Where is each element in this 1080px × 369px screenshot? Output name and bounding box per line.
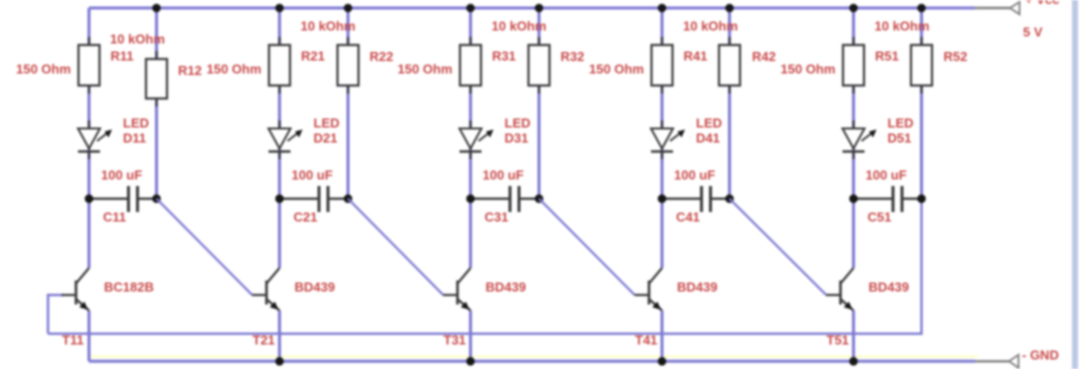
- svg-text:R21: R21: [301, 49, 325, 64]
- wire T11 base loop vertical: [47, 294, 49, 334]
- svg-text:10 kOhm: 10 kOhm: [683, 19, 738, 34]
- node stage1 rail right: [152, 4, 161, 13]
- svg-text:- GND: - GND: [1022, 348, 1059, 363]
- capacitor C51: [854, 186, 922, 212]
- resistor R11: [79, 37, 100, 94]
- transistor T11: [62, 268, 90, 311]
- svg-text:C11: C11: [103, 210, 126, 225]
- wire C31 to T41 base: [539, 199, 635, 295]
- node stage4 ground: [658, 357, 667, 366]
- node stage4 cap right: [725, 194, 734, 203]
- svg-text:R42: R42: [752, 49, 776, 64]
- node stage2 cap right: [344, 194, 353, 203]
- capacitor C21: [280, 186, 349, 212]
- node stage2 cap left: [275, 194, 284, 203]
- wire stage2 right vertical: [347, 8, 350, 199]
- transistor T31: [443, 268, 471, 311]
- svg-text:R41: R41: [684, 49, 708, 64]
- svg-text:BD439: BD439: [869, 280, 909, 295]
- resistor R32: [529, 37, 550, 94]
- svg-text:R11: R11: [111, 49, 134, 64]
- svg-text:LED: LED: [505, 116, 531, 131]
- svg-text:R31: R31: [492, 49, 516, 64]
- svg-text:10 kOhm: 10 kOhm: [110, 32, 165, 47]
- svg-text:LED: LED: [696, 116, 722, 131]
- svg-text:C31: C31: [485, 210, 509, 225]
- node stage5 rail left: [849, 4, 858, 13]
- svg-text:D51: D51: [888, 131, 912, 146]
- node stage5 cap right: [917, 194, 926, 203]
- resistor R52: [911, 37, 932, 94]
- node stage4 rail left: [658, 4, 667, 13]
- svg-text:LED: LED: [123, 116, 149, 131]
- node stage2 rail left: [275, 4, 284, 13]
- svg-text:D41: D41: [696, 131, 720, 146]
- terminal +Vcc: [1010, 2, 1020, 14]
- svg-text:LED: LED: [314, 116, 340, 131]
- wire stage4 right vertical: [728, 8, 731, 199]
- svg-text:10 kOhm: 10 kOhm: [492, 19, 547, 34]
- wire +5V top rail: [89, 7, 975, 10]
- svg-text:C51: C51: [868, 210, 892, 225]
- resistor R42: [719, 37, 740, 94]
- svg-text:10 kOhm: 10 kOhm: [875, 19, 930, 34]
- node stage4 rail right: [725, 4, 734, 13]
- wire T41 emitter to ground: [661, 311, 664, 362]
- LED D41: [651, 121, 685, 160]
- svg-text:10 kOhm: 10 kOhm: [301, 19, 356, 34]
- wire stage1 left vertical: [88, 8, 91, 268]
- svg-text:150 Ohm: 150 Ohm: [207, 62, 262, 77]
- svg-text:BD439: BD439: [677, 280, 717, 295]
- wire GND terminal lead: [975, 360, 1009, 362]
- transistor T51: [826, 268, 854, 311]
- svg-text:5 V: 5 V: [1023, 25, 1043, 40]
- wire stage5 left vertical: [852, 8, 855, 268]
- svg-text:+ Vcc: + Vcc: [1025, 0, 1059, 7]
- LED D11: [78, 121, 112, 160]
- terminal GND: [1009, 355, 1019, 368]
- LED D31: [460, 121, 494, 160]
- node stage1 cap left: [85, 194, 94, 203]
- svg-text:100 uF: 100 uF: [866, 168, 907, 183]
- svg-text:150 Ohm: 150 Ohm: [398, 62, 453, 77]
- wire stage1 right vertical: [155, 8, 158, 199]
- capacitor C41: [662, 186, 730, 212]
- wire +5V terminal lead: [975, 7, 1010, 9]
- svg-text:C41: C41: [676, 210, 700, 225]
- svg-text:T21: T21: [253, 333, 275, 348]
- svg-text:D31: D31: [505, 131, 529, 146]
- LED D51: [843, 121, 877, 160]
- svg-text:150 Ohm: 150 Ohm: [589, 62, 644, 77]
- svg-text:R51: R51: [875, 49, 899, 64]
- node stage4 cap left: [658, 194, 667, 203]
- wire T31 emitter to ground: [469, 311, 472, 362]
- svg-text:150 Ohm: 150 Ohm: [781, 62, 836, 77]
- svg-text:R32: R32: [561, 49, 585, 64]
- node stage1 cap right: [152, 194, 161, 203]
- wire T11 base loop horizontal: [48, 294, 64, 296]
- wire stage3 left vertical: [469, 8, 472, 268]
- node stage3 rail left: [466, 4, 475, 13]
- wire stage5 base drop: [920, 199, 922, 335]
- wire T11 emitter to ground: [88, 311, 91, 362]
- svg-text:T11: T11: [62, 333, 84, 348]
- svg-text:BD439: BD439: [295, 280, 335, 295]
- capacitor C11: [89, 186, 157, 212]
- svg-text:BC182B: BC182B: [104, 280, 154, 295]
- svg-text:T41: T41: [635, 333, 657, 348]
- node stage5 rail right: [917, 4, 926, 13]
- wire feedback bottom: [48, 333, 922, 335]
- resistor R21: [269, 37, 290, 94]
- svg-text:R52: R52: [944, 49, 968, 64]
- svg-text:D11: D11: [123, 131, 146, 146]
- svg-text:100 uF: 100 uF: [674, 168, 715, 183]
- wire C41 to T51 base: [730, 199, 827, 295]
- resistor R31: [460, 37, 481, 94]
- transistor T21: [252, 268, 280, 311]
- svg-text:100 uF: 100 uF: [101, 168, 142, 183]
- svg-text:T51: T51: [827, 333, 849, 348]
- LED D21: [269, 121, 303, 160]
- wire GND bottom rail: [89, 360, 975, 363]
- wire GND highlight: [90, 355, 978, 357]
- svg-text:100 uF: 100 uF: [483, 168, 524, 183]
- wire stage2 left vertical: [278, 8, 281, 268]
- node stage2 ground: [275, 357, 284, 366]
- resistor R22: [338, 37, 359, 94]
- svg-text:R12: R12: [178, 63, 202, 78]
- node stage3 cap right: [535, 194, 544, 203]
- node stage5 ground: [849, 357, 858, 366]
- resistor R51: [843, 37, 864, 94]
- svg-text:C21: C21: [294, 210, 318, 225]
- wire T21 emitter to ground: [278, 311, 281, 362]
- window border right edge: [1072, 0, 1078, 369]
- svg-text:R22: R22: [370, 49, 394, 64]
- node stage3 rail right: [535, 4, 544, 13]
- wire stage5 right vertical: [920, 8, 923, 199]
- node stage3 ground: [466, 357, 475, 366]
- svg-text:LED: LED: [888, 116, 914, 131]
- transistor T41: [635, 268, 663, 311]
- wire C11 to T21 base: [157, 199, 253, 295]
- svg-text:T31: T31: [444, 333, 466, 348]
- svg-text:BD439: BD439: [486, 280, 526, 295]
- node stage2 rail right: [344, 4, 353, 13]
- capacitor C31: [471, 186, 540, 212]
- wire stage4 left vertical: [661, 8, 664, 268]
- svg-text:D21: D21: [314, 131, 338, 146]
- resistor R41: [652, 37, 673, 94]
- resistor R12: [146, 51, 167, 107]
- wire stage3 right vertical: [538, 8, 541, 199]
- wire C21 to T31 base: [348, 199, 443, 295]
- node stage3 cap left: [466, 194, 475, 203]
- svg-text:100 uF: 100 uF: [292, 168, 333, 183]
- svg-text:150 Ohm: 150 Ohm: [16, 62, 71, 77]
- wire T51 emitter to ground: [852, 311, 855, 362]
- node stage5 cap left: [849, 194, 858, 203]
